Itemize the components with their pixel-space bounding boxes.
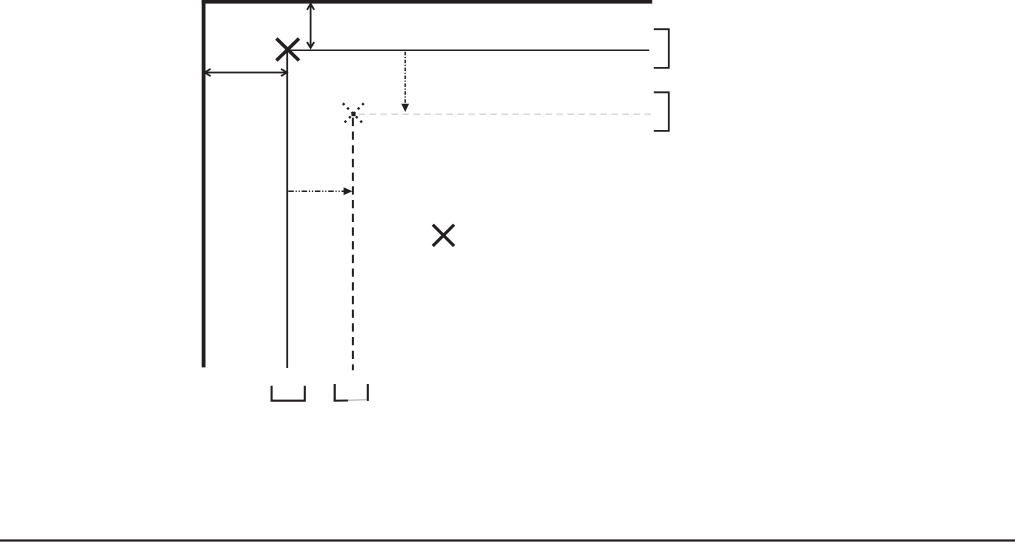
dotted X mark (343, 103, 364, 124)
bottom-right U bracket (dark bottom segment) (334, 400, 348, 402)
horizontal guide line from corner X to the right (290, 49, 650, 51)
bottom-right U bracket (right post) (367, 384, 369, 401)
bottom-right U bracket (faded bottom segment) (348, 399, 367, 402)
corner X mark (276, 39, 299, 61)
upper-right square bracket (654, 29, 669, 68)
bottom-right U bracket (left post) (334, 384, 336, 401)
dash-dot arrow pointing right (288, 187, 352, 195)
light dashed horizontal guide (359, 113, 653, 115)
lower X mark (433, 225, 454, 246)
dotted arrow pointing down (401, 52, 409, 112)
dotted X mark center blob (351, 112, 355, 116)
wall left edge (thick line) (202, 0, 206, 367)
dashed vertical line below dotted X (352, 118, 354, 370)
lower-right square bracket (654, 92, 669, 131)
left margin dimension arrow (double-headed horizontal) (205, 69, 287, 76)
wall top edge (thick line) (202, 0, 653, 4)
top margin dimension arrow (double-headed vertical) (307, 4, 314, 48)
footer rule (full width) (0, 539, 1015, 541)
bottom-left U bracket (272, 386, 305, 401)
vertical guide line from corner X downward (286, 50, 288, 368)
